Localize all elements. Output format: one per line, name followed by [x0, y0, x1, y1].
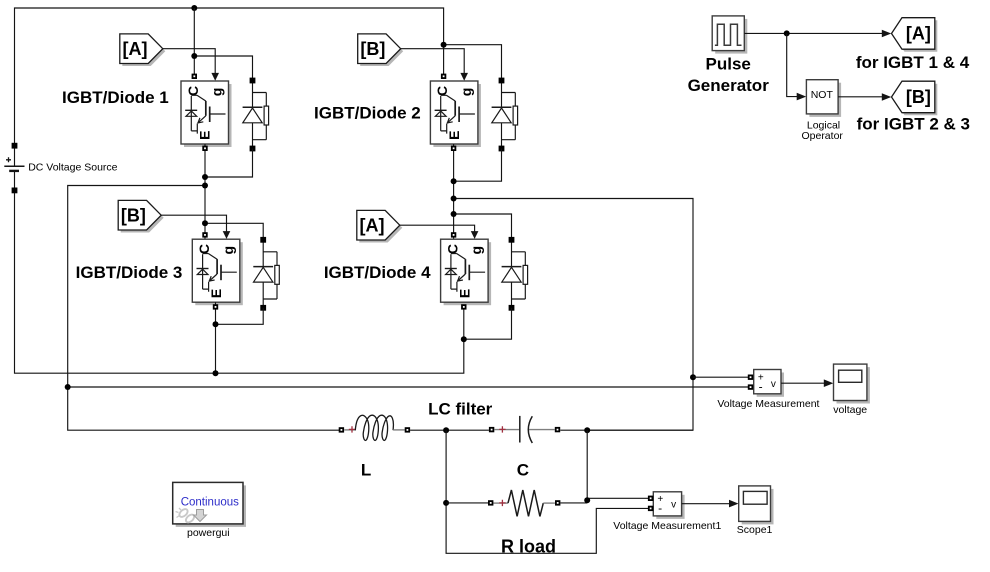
- node right midpoint: [451, 196, 457, 202]
- arrow gate g1: [211, 73, 219, 81]
- node minus sense tap: [65, 384, 71, 390]
- node top rail junction above IGBT1: [191, 5, 197, 11]
- node collector/diode junction IGBT4: [451, 211, 457, 217]
- pulse generator block: [712, 16, 747, 54]
- inductor L: [339, 415, 410, 440]
- wire R to C output node: [561, 430, 649, 503]
- from tag [A] for IGBT1 gate: [120, 34, 166, 66]
- wire branch to diode D2 top: [444, 45, 502, 81]
- port E2: [451, 146, 456, 151]
- svg-text:Generator: Generator: [688, 76, 770, 95]
- arrow gate g4: [471, 231, 479, 239]
- wire L to C: [410, 429, 489, 431]
- port C4: [451, 232, 456, 237]
- wire VM to voltage scope: [781, 382, 824, 384]
- wire E1 down through left midpoint to C3: [204, 144, 206, 239]
- node filter tap to R load: [443, 427, 449, 433]
- svg-text:Operator: Operator: [801, 130, 843, 142]
- svg-text:Scope1: Scope1: [737, 524, 773, 536]
- svg-text:for IGBT 1 & 4: for IGBT 1 & 4: [856, 53, 970, 72]
- node E3 to DC- rail: [213, 370, 219, 376]
- diode D4 with snubber: [502, 237, 528, 311]
- wire from [A] to gate g1: [163, 49, 215, 74]
- resistor R load: [488, 490, 560, 516]
- node E3/D3 junction: [213, 321, 219, 327]
- node R branch: [443, 500, 449, 506]
- arrow into Scope1: [729, 500, 739, 508]
- arrow into NOT: [797, 93, 807, 101]
- IGBT/Diode 2 block: [430, 81, 481, 147]
- svg-text:[A]: [A]: [906, 24, 931, 44]
- Scope1 block: [739, 486, 774, 525]
- wire DC- bottom rail battery to E4: [15, 193, 464, 373]
- svg-text:[B]: [B]: [360, 39, 385, 59]
- from tag [B] for IGBT3 gate: [118, 200, 164, 232]
- voltage measurement block: [748, 370, 784, 397]
- IGBT/Diode 4 block: [441, 239, 492, 305]
- svg-text:C: C: [517, 460, 529, 479]
- svg-text:voltage: voltage: [833, 404, 867, 416]
- diode D3 with snubber: [253, 237, 279, 311]
- port E4: [461, 304, 466, 309]
- wire E3 down to DC- rail: [215, 302, 217, 373]
- port C3: [202, 232, 207, 237]
- svg-text:for IGBT 2 & 3: for IGBT 2 & 3: [857, 115, 970, 134]
- wire VM1 to Scope1: [682, 503, 730, 505]
- wire plus sense to voltage measurement: [693, 376, 748, 378]
- node collector/diode junction IGBT1: [191, 53, 197, 59]
- svg-text:[A]: [A]: [123, 39, 148, 59]
- svg-text:IGBT/Diode 4: IGBT/Diode 4: [324, 263, 431, 282]
- port C2: [441, 74, 446, 79]
- wire NOT to goto B: [838, 96, 882, 98]
- wire branch to diode D4 top: [454, 214, 512, 240]
- arrow gate g2: [460, 73, 468, 81]
- svg-text:[B]: [B]: [121, 206, 146, 226]
- voltage scope block: [834, 364, 870, 403]
- wire from [A] to gate g4: [400, 225, 475, 232]
- IGBT/Diode 1 block: [181, 81, 232, 147]
- wire to R left: [446, 502, 488, 504]
- port E1: [202, 146, 207, 151]
- IGBT/Diode 3 block: [192, 239, 243, 305]
- powergui block: [173, 482, 246, 527]
- capacitor C: [489, 416, 560, 443]
- svg-text:-: -: [759, 380, 763, 394]
- node plus sense tap: [690, 374, 696, 380]
- wire D1 bottom to E1: [205, 149, 253, 178]
- svg-text:Voltage Measurement: Voltage Measurement: [717, 398, 819, 410]
- voltage measurement1 block: [648, 492, 685, 519]
- arrow gate g3: [223, 231, 231, 239]
- wire from [B] to gate g3: [161, 215, 226, 232]
- svg-text:R load: R load: [501, 536, 556, 556]
- node collector/diode junction IGBT2: [441, 42, 447, 48]
- from tag [B] for IGBT2 gate: [358, 34, 404, 66]
- svg-text:IGBT/Diode 1: IGBT/Diode 1: [62, 88, 169, 107]
- wire D4 bottom to E4: [464, 308, 512, 339]
- arrow into goto A: [882, 30, 892, 38]
- svg-text:IGBT/Diode 3: IGBT/Diode 3: [76, 263, 183, 282]
- port E3: [213, 304, 218, 309]
- wire left midpoint rail to load: [68, 186, 342, 431]
- from tag [A] for IGBT4 gate: [357, 210, 403, 242]
- wire pulse gen to goto A: [744, 32, 882, 34]
- node C output junction: [584, 427, 590, 433]
- DC Voltage Source battery: [4, 143, 24, 194]
- wire D2 bottom to E2: [454, 149, 502, 182]
- svg-text:-: -: [658, 501, 662, 515]
- wire C to right midpoint drop: [560, 429, 693, 431]
- diode D2 with snubber: [492, 78, 518, 152]
- diode D1 with snubber: [243, 78, 269, 152]
- wire R load branch left leg: [446, 430, 648, 553]
- svg-text:NOT: NOT: [811, 89, 834, 101]
- wire right midpoint rail down to load return: [454, 199, 693, 431]
- node load output junction: [584, 497, 590, 503]
- svg-text:LC filter: LC filter: [428, 400, 493, 419]
- wire collector drop to IGBT1: [193, 8, 195, 79]
- svg-text:Pulse: Pulse: [706, 54, 751, 73]
- node E1/D1 junction: [202, 174, 208, 180]
- svg-text:v: v: [771, 379, 776, 390]
- svg-text:[B]: [B]: [906, 87, 931, 107]
- svg-text:[A]: [A]: [360, 216, 385, 236]
- wire to NOT block: [787, 33, 798, 96]
- port C1: [192, 74, 197, 79]
- goto tag [A]: [892, 18, 938, 52]
- svg-text:L: L: [361, 460, 371, 479]
- svg-text:Voltage Measurement1: Voltage Measurement1: [613, 520, 721, 532]
- wire E2 down through right midpoint to C4: [453, 144, 455, 239]
- svg-text:Continuous: Continuous: [181, 496, 239, 508]
- wire branch to diode D1 top: [194, 56, 252, 81]
- node left midpoint: [202, 183, 208, 189]
- node collector/diode junction IGBT3: [202, 220, 208, 226]
- node E2/D2 junction: [451, 178, 457, 184]
- arrow into voltage scope: [824, 379, 834, 387]
- svg-text:IGBT/Diode 2: IGBT/Diode 2: [314, 104, 421, 123]
- svg-text:DC Voltage Source: DC Voltage Source: [28, 162, 117, 174]
- svg-text:v: v: [671, 499, 676, 510]
- svg-text:powergui: powergui: [187, 527, 230, 539]
- node E4/D4 junction: [461, 336, 467, 342]
- wire minus sense rail to voltage measurement: [68, 386, 748, 388]
- NOT logical operator block: [806, 80, 841, 117]
- arrow into goto B: [882, 93, 892, 101]
- goto tag [B]: [892, 81, 938, 115]
- wire D3 bottom to E3: [216, 308, 264, 325]
- wire branch to diode D3 top: [205, 223, 263, 240]
- wire top DC+ rail from battery to IGBT2 collector: [15, 8, 444, 144]
- wire from [B] to gate g2: [401, 49, 465, 74]
- node gate signal split: [784, 30, 790, 36]
